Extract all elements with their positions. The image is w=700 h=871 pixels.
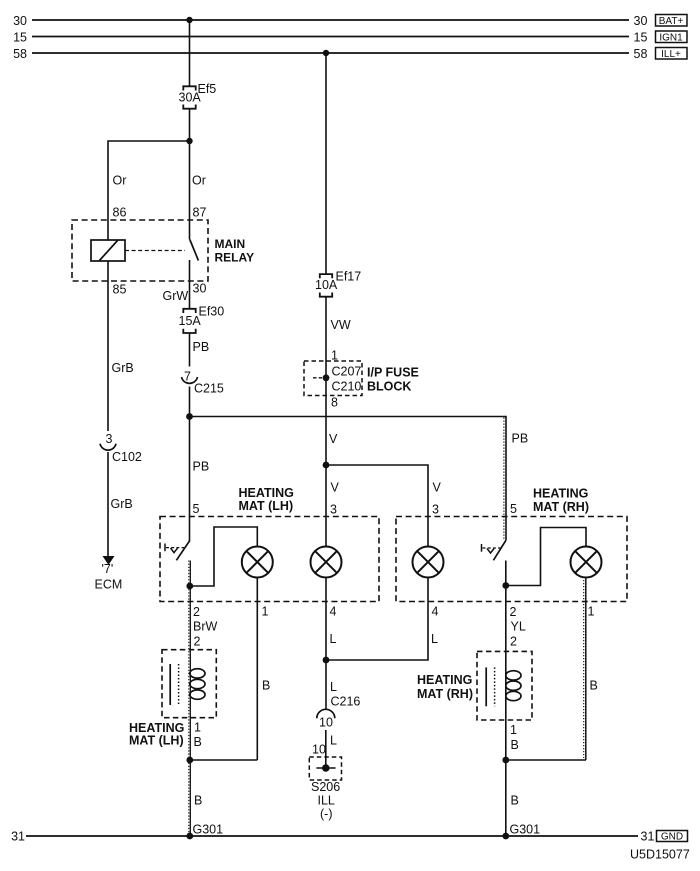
svg-text:PB: PB — [193, 340, 210, 354]
RH ground rail junction — [502, 757, 509, 764]
heating mat RH dashed box — [396, 517, 627, 602]
L junction node — [323, 657, 330, 664]
svg-text:86: 86 — [113, 206, 127, 220]
svg-text:MAT (RH): MAT (RH) — [533, 500, 589, 514]
LH switch: pin5 wire into box — [189, 417, 191, 542]
svg-text:GrW: GrW — [163, 289, 189, 303]
connector C215 pin 7 — [182, 370, 224, 396]
svg-text:30: 30 — [13, 14, 27, 28]
LH BrW dotted wire down through element — [189, 586, 191, 836]
connector C216 pin 10 — [317, 695, 361, 730]
lamp LH1 bottom wire to ground rail — [256, 578, 258, 761]
relay coil box — [91, 240, 125, 261]
svg-text:30: 30 — [634, 14, 648, 28]
svg-text:Ef5: Ef5 — [198, 82, 217, 96]
heating mat LH dashed box — [160, 517, 379, 602]
dotted companion line on RH drop — [503, 418, 505, 541]
svg-text:10: 10 — [312, 743, 326, 757]
LH element plates — [170, 664, 178, 705]
wire branch left to relay coil — [108, 141, 190, 220]
svg-text:BAT+: BAT+ — [659, 16, 684, 27]
svg-text:(-): (-) — [320, 807, 333, 821]
V junction node — [323, 462, 330, 469]
svg-text:1: 1 — [262, 605, 269, 619]
svg-text:BLOCK: BLOCK — [367, 380, 411, 394]
svg-text:RELAY: RELAY — [215, 251, 255, 265]
svg-text:MAT (LH): MAT (LH) — [239, 499, 294, 513]
wire fuse Ef17 to I/P fuse block — [325, 297, 327, 361]
svg-text:3: 3 — [106, 432, 113, 446]
svg-text:GrB: GrB — [112, 361, 134, 375]
RH element plates — [486, 667, 494, 706]
svg-text:'7': '7' — [102, 562, 114, 576]
fuse Ef5 30A — [179, 82, 217, 109]
svg-text:58: 58 — [634, 47, 648, 61]
RH switch output wire to node — [505, 561, 507, 586]
svg-text:L: L — [330, 680, 337, 694]
LH switch output node — [186, 583, 193, 590]
bus line 58 (ILL+) — [13, 47, 647, 61]
svg-text:1: 1 — [194, 721, 201, 735]
svg-text:15: 15 — [13, 31, 27, 45]
svg-text:ECM: ECM — [95, 578, 123, 592]
svg-text:Ef30: Ef30 — [199, 305, 225, 319]
relay contact blade (open switch) — [190, 220, 199, 281]
svg-text:G301: G301 — [510, 823, 541, 837]
connector C102 pin 3 — [100, 432, 142, 464]
svg-text:5: 5 — [510, 502, 517, 516]
svg-text:V: V — [329, 432, 338, 446]
PB horizontal wire to RH side — [190, 417, 507, 541]
svg-text:L: L — [330, 734, 337, 748]
svg-text:V: V — [331, 481, 340, 495]
svg-text:MAIN: MAIN — [215, 237, 246, 251]
PB junction node — [186, 413, 193, 420]
svg-text:L: L — [431, 632, 438, 646]
bus line 15 (IGN1) — [13, 31, 647, 45]
svg-text:PB: PB — [512, 432, 529, 446]
svg-text:ILL+: ILL+ — [661, 49, 681, 60]
RH lamp1 top wire inside box — [427, 546, 429, 548]
ECM destination label — [95, 562, 123, 592]
lamp LH2 bottom wire to L junction — [325, 578, 327, 661]
svg-text:B: B — [194, 735, 202, 749]
S206 splice node — [322, 764, 330, 772]
svg-text:Or: Or — [113, 174, 127, 188]
wire below relay coil — [107, 261, 109, 281]
svg-text:4: 4 — [330, 605, 337, 619]
svg-text:L: L — [330, 632, 337, 646]
svg-text:GrB: GrB — [111, 497, 133, 511]
fuse Ef17 10A — [315, 270, 361, 297]
svg-text:8: 8 — [331, 396, 338, 410]
junction on bus 58 — [323, 50, 329, 56]
svg-text:1: 1 — [588, 605, 595, 619]
ground junction dot on bus 31 (left) — [186, 833, 193, 840]
svg-text:VW: VW — [331, 318, 351, 332]
svg-text:B: B — [590, 679, 598, 693]
HEATING MAT (LH) title — [239, 486, 294, 513]
LH switch output wire (dotted BrW) down to node — [189, 561, 191, 587]
LH thermal actuator symbol — [165, 544, 184, 553]
junction dot inside I/P block — [323, 374, 330, 381]
left branch: relay pin85 down — [107, 281, 109, 431]
svg-text:HEATING: HEATING — [239, 486, 294, 500]
svg-text:5: 5 — [193, 502, 200, 516]
bus line 31 (GND) — [11, 830, 654, 844]
relay actuator dashed link — [125, 250, 185, 252]
svg-text:10: 10 — [319, 716, 333, 730]
wire C215 to PB junction — [189, 387, 191, 417]
wire L junction down to C216 — [325, 660, 327, 709]
HEATING MAT (RH) element label — [417, 673, 473, 701]
svg-text:3: 3 — [432, 503, 439, 517]
lamp RH2 bottom wire (dotted B) — [585, 578, 587, 761]
svg-text:C102: C102 — [112, 450, 142, 464]
wire bus 58 down to fuse Ef17 — [325, 53, 327, 274]
svg-text:85: 85 — [113, 283, 127, 297]
svg-text:B: B — [511, 738, 519, 752]
lamp LH2 — [311, 547, 342, 578]
LH ground rail junction — [186, 757, 193, 764]
svg-text:B: B — [262, 679, 270, 693]
svg-text:U5D15077: U5D15077 — [630, 848, 690, 862]
LH riser wire to lamp 1 — [190, 527, 257, 586]
lamp RH1 bottom wire to L junction — [326, 578, 428, 661]
wire down to relay contact pin 87 — [189, 141, 191, 220]
svg-text:Or: Or — [192, 174, 206, 188]
svg-text:I/P FUSE: I/P FUSE — [367, 366, 419, 380]
svg-text:4: 4 — [432, 605, 439, 619]
ILL+ tag box — [656, 48, 688, 61]
lamp RH1 — [413, 547, 444, 578]
svg-text:87: 87 — [193, 206, 207, 220]
relay coil U: wire through coil — [107, 220, 109, 240]
svg-text:2: 2 — [193, 605, 200, 619]
wire from bus 30 down to fuse Ef5 — [189, 20, 191, 86]
RH thermal actuator symbol — [482, 544, 501, 553]
heating element LH dashed box — [162, 650, 216, 718]
RH YL wire down through element — [505, 586, 507, 837]
svg-text:2: 2 — [510, 635, 517, 649]
svg-text:C207: C207 — [332, 365, 362, 379]
arrow to ECM — [103, 556, 115, 565]
wire through I/P block — [325, 361, 327, 396]
svg-text:G301: G301 — [193, 823, 224, 837]
svg-text:MAT (LH): MAT (LH) — [129, 734, 184, 748]
LH switch blade — [176, 541, 189, 561]
svg-text:Ef17: Ef17 — [336, 270, 362, 284]
wire from fuse Ef5 to branch node — [189, 109, 191, 141]
ground junction dot on bus 31 (right) — [502, 833, 509, 840]
HEATING MAT (LH) element label — [129, 721, 184, 748]
junction on bus 30 — [186, 17, 192, 23]
wire V down to LH lamp pin 3 — [325, 465, 327, 547]
svg-text:58: 58 — [13, 47, 27, 61]
BAT+ tag box — [656, 15, 688, 28]
svg-text:15: 15 — [634, 31, 648, 45]
svg-text:31: 31 — [11, 830, 25, 844]
svg-text:2: 2 — [510, 605, 517, 619]
svg-text:IGN1: IGN1 — [659, 33, 683, 44]
GND tag box — [657, 831, 688, 843]
S206 ILL (-) label — [311, 780, 340, 821]
RH switch output node — [502, 582, 509, 589]
svg-text:B: B — [194, 794, 202, 808]
svg-text:2: 2 — [194, 635, 201, 649]
MAIN RELAY label — [215, 237, 255, 265]
I/P FUSE BLOCK label — [367, 366, 419, 394]
S206 splice bar — [316, 767, 335, 769]
svg-text:PB: PB — [193, 460, 210, 474]
bus line 30 (BAT+) — [13, 14, 647, 28]
svg-text:V: V — [433, 481, 442, 495]
svg-text:HEATING: HEATING — [417, 673, 472, 687]
IGN1 tag box — [656, 31, 688, 44]
splice S206 dashed box — [309, 757, 341, 780]
RH riser wire to lamp 2 — [506, 528, 586, 586]
svg-text:GND: GND — [661, 832, 683, 843]
lamp RH2 — [571, 547, 602, 578]
svg-text:C216: C216 — [331, 695, 361, 709]
RH element coil — [506, 671, 521, 701]
HEATING MAT (RH) title — [533, 487, 589, 515]
svg-text:C215: C215 — [194, 382, 224, 396]
svg-text:ILL: ILL — [318, 794, 335, 808]
wire relay pin30 to fuse Ef30 — [189, 281, 191, 309]
svg-text:3: 3 — [330, 503, 337, 517]
svg-text:MAT (RH): MAT (RH) — [417, 687, 473, 701]
svg-text:C210: C210 — [332, 380, 362, 394]
svg-text:S206: S206 — [311, 780, 340, 794]
svg-text:HEATING: HEATING — [533, 487, 588, 501]
wire I/P block down to V junction — [325, 396, 327, 466]
branch junction — [186, 138, 192, 144]
svg-text:31: 31 — [641, 830, 655, 844]
svg-text:30: 30 — [193, 282, 207, 296]
V branch wire to RH lamp pin 3 — [326, 465, 428, 547]
svg-text:1: 1 — [510, 723, 517, 737]
heating element RH dashed box — [477, 651, 532, 720]
svg-text:B: B — [511, 794, 519, 808]
I/P fuse block dashed box — [304, 361, 362, 396]
wire C216 down to S206 — [325, 730, 327, 768]
svg-text:10A: 10A — [315, 278, 338, 292]
connector C207/C210 labels — [332, 365, 362, 394]
main relay dashed box — [72, 220, 208, 281]
wire fuse Ef30 to C215 — [189, 333, 191, 367]
wire C102 down — [107, 452, 109, 557]
svg-text:YL: YL — [511, 620, 526, 634]
lamp LH1 — [242, 547, 273, 578]
LH lamp1 B wire joins junction — [190, 759, 257, 761]
LH element coil — [190, 669, 205, 700]
fuse Ef30 15A — [179, 305, 225, 334]
RH switch blade — [493, 541, 505, 561]
dashed stub left of dot — [313, 377, 322, 379]
svg-text:BrW: BrW — [193, 620, 218, 634]
